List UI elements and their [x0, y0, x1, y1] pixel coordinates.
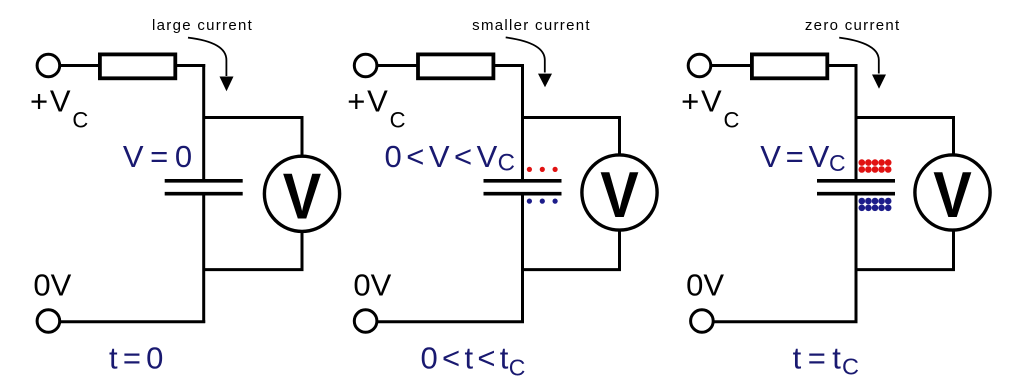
wire main vertical lower (panel 2) [521, 194, 524, 323]
terminal 0V (panel 3) [691, 310, 714, 333]
svg-text:0<V<VC: 0<V<VC [385, 139, 515, 177]
capacitor bottom plate (panel 3) [817, 192, 895, 196]
resistor (panel 3) [752, 54, 827, 78]
capacitor top plate (panel 2) [484, 179, 562, 183]
terminal 0V (panel 2) [354, 310, 377, 333]
voltmeter circle (panel 2) [582, 155, 657, 230]
annotation arrow (zero current) [839, 38, 886, 89]
wire main vertical upper (panel 1) [202, 64, 205, 180]
capacitor bottom plate (panel 1) [165, 192, 243, 196]
wire voltmeter bottom (panel 2) [523, 231, 620, 270]
wire resistor to corner (panel 1) [177, 64, 206, 67]
wire resistor to corner (panel 3) [829, 64, 858, 67]
svg-text:0V: 0V [33, 267, 71, 302]
wire main vertical lower (panel 1) [202, 194, 205, 323]
terminal 0V (panel 1) [37, 310, 60, 333]
terminal +Vc (panel 3) [688, 54, 711, 77]
voltmeter circle (panel 1) [264, 156, 339, 231]
wire main vertical upper (panel 2) [521, 64, 524, 180]
wire branch top (panel 1) [204, 118, 302, 157]
charge dots red (panel 2) [527, 167, 558, 172]
annotation arrow (smaller current) [506, 37, 552, 87]
svg-text:zero current: zero current [805, 17, 901, 34]
terminal +Vc (panel 1) [37, 54, 60, 77]
annotation arrow (large current) [188, 38, 234, 92]
terminal +Vc (panel 2) [354, 54, 377, 77]
capacitor top plate (panel 3) [817, 179, 895, 183]
svg-text:t=0: t=0 [109, 341, 169, 376]
svg-text:V=0: V=0 [123, 139, 199, 174]
resistor (panel 2) [418, 54, 493, 78]
resistor (panel 1) [100, 54, 175, 78]
svg-text:V=VC: V=VC [760, 139, 845, 176]
wire bottom (panel 3) [713, 320, 857, 323]
charge dots red (panel 3) [859, 159, 892, 173]
svg-text:smaller current: smaller current [472, 17, 591, 34]
svg-text:0V: 0V [353, 267, 391, 302]
wire voltmeter bottom (panel 1) [204, 232, 302, 270]
wire bottom (panel 1) [60, 320, 206, 323]
svg-text:V: V [933, 158, 972, 231]
capacitor bottom plate (panel 2) [484, 192, 562, 196]
charge dots blue (panel 3) [859, 198, 892, 211]
wire main vertical lower (panel 3) [855, 194, 858, 323]
svg-text:V: V [600, 158, 639, 231]
capacitor top plate (panel 1) [165, 179, 243, 183]
wire terminal to resistor (panel 3) [711, 64, 752, 67]
wire resistor to corner (panel 2) [495, 64, 524, 67]
voltmeter circle (panel 3) [915, 155, 990, 230]
wire terminal to resistor (panel 1) [60, 64, 100, 67]
wire terminal to resistor (panel 2) [377, 64, 418, 67]
wire branch top (panel 2) [523, 118, 620, 157]
wire bottom (panel 2) [377, 320, 524, 323]
wire voltmeter bottom (panel 3) [856, 231, 954, 270]
wire branch top (panel 3) [856, 118, 954, 157]
charge dots blue (panel 2) [527, 199, 558, 204]
svg-text:0<t<tC: 0<t<tC [421, 341, 526, 381]
svg-text:V: V [283, 159, 322, 232]
svg-text:0V: 0V [686, 267, 724, 302]
svg-text:large current: large current [152, 17, 253, 34]
wire main vertical upper (panel 3) [855, 64, 858, 180]
